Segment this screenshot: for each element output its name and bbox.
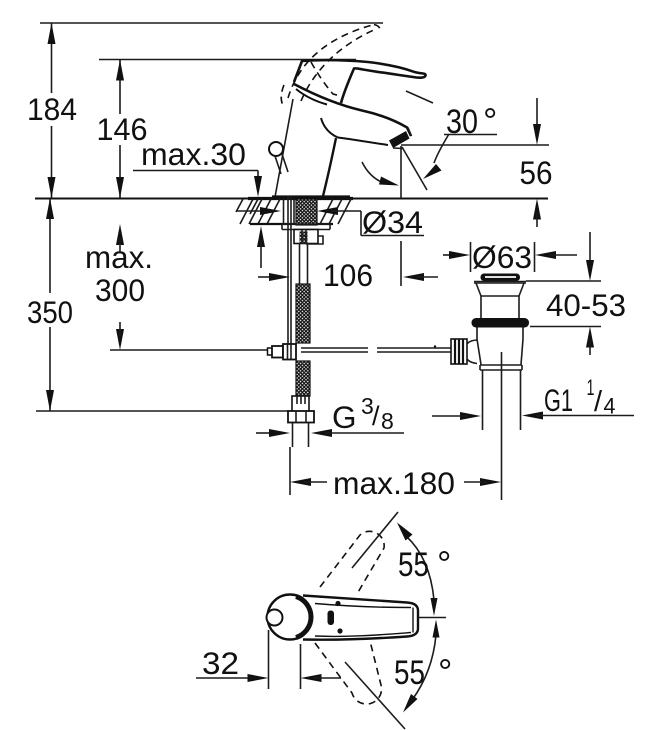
faucet mounting washer — [282, 224, 330, 230]
wire horizontal pop-up rod left segment — [301, 348, 368, 352]
bottom view: dimension 55 lower — [394, 620, 452, 713]
faucet flexible hose lower — [296, 361, 310, 396]
popup waste drain assembly — [451, 274, 529, 501]
svg-text:max.180: max.180 — [333, 465, 455, 501]
svg-text:Ø34: Ø34 — [362, 204, 423, 240]
bottom view: handle plan outline — [267, 595, 419, 640]
faucet hose connector — [300, 244, 308, 285]
faucet pop-up rod knob — [269, 142, 288, 174]
faucet flexible hose upper — [296, 284, 310, 343]
bottom view: dimension 55 upper — [397, 523, 451, 617]
deck slab hatching left — [236, 199, 280, 224]
faucet mounting nut — [294, 230, 323, 245]
svg-text:G1: G1 — [544, 382, 573, 418]
bottom view: angle leg upper — [352, 512, 398, 568]
node dimension 30 deg — [402, 100, 497, 190]
faucet solid lever handle — [294, 60, 426, 103]
svg-text:G: G — [332, 399, 357, 435]
wire bottom reference line 350 — [36, 410, 288, 412]
svg-text:Ø63: Ø63 — [472, 239, 532, 275]
drain knurled knob — [451, 339, 467, 364]
bottom view: angle leg lower — [345, 662, 405, 729]
svg-text:300: 300 — [95, 272, 145, 308]
faucet hose pipe end — [293, 423, 309, 448]
svg-text:/: / — [594, 386, 603, 418]
svg-text:8: 8 — [381, 408, 394, 434]
handle inner bottom line — [315, 633, 411, 637]
node dimension 106 — [258, 257, 438, 293]
faucet pull rod clamp — [268, 344, 297, 360]
node dimension G1 1/4 — [432, 375, 634, 420]
wire deck slab thick segment — [248, 197, 353, 200]
drain body upper — [477, 328, 523, 340]
node dimension max.180 — [290, 465, 501, 501]
node dimension max.300 — [85, 224, 153, 350]
node dimension 184 — [27, 23, 77, 198]
faucet cap rim arc — [296, 89, 327, 105]
drain center line — [501, 352, 503, 500]
bottom view: center axis line — [418, 617, 446, 619]
drain side port — [465, 340, 478, 364]
svg-text:350: 350 — [27, 294, 73, 330]
drain upper cylinder — [481, 296, 519, 318]
handle dot lower — [337, 628, 342, 633]
wire spout outlet reference line — [401, 144, 549, 146]
svg-text:146: 146 — [97, 111, 148, 147]
svg-text:56: 56 — [520, 155, 553, 191]
node dimension 146 — [97, 60, 148, 199]
handle tip inner line — [412, 608, 414, 633]
handle inner top line — [315, 604, 411, 608]
node dimension max.30 — [133, 136, 265, 268]
node dimension diameter 34 — [237, 204, 424, 240]
faucet hose hex nut — [288, 411, 314, 423]
faucet body outline — [272, 99, 388, 197]
node dimension G 3/8 — [256, 393, 404, 437]
wire hose center line — [289, 447, 291, 495]
svg-text:55: 55 — [394, 654, 425, 692]
bottom view: dashed handle rotated up — [320, 531, 384, 594]
wire top reference line 184 — [40, 22, 383, 24]
faucet pull rod tube — [284, 199, 295, 224]
svg-text:°: ° — [437, 543, 451, 584]
svg-text:/: / — [372, 401, 380, 431]
svg-text:max.30: max.30 — [141, 136, 246, 172]
faucet aerator outlet — [389, 128, 412, 149]
wire spout vertical extension line — [400, 146, 402, 198]
bottom view: dashed handle rotated down — [315, 641, 382, 704]
wire horizontal pop-up rod right segment — [377, 348, 452, 352]
faucet hose end fitting — [292, 396, 309, 412]
node dimension 40-53 — [526, 232, 626, 355]
faucet swivel arrow — [362, 162, 399, 186]
drain cap brim — [474, 281, 526, 283]
svg-text:°: ° — [438, 651, 452, 692]
drain cup body — [477, 339, 523, 365]
drain tailpipe — [483, 370, 521, 430]
bottom view: dimension 32 — [196, 630, 341, 689]
drain cap plate — [481, 274, 521, 282]
svg-text:40-53: 40-53 — [546, 287, 626, 323]
drain o-ring seal — [472, 318, 530, 328]
handle dot upper — [335, 601, 340, 606]
svg-text:106: 106 — [323, 257, 373, 293]
node dimension 350 — [27, 198, 73, 411]
wire deck counter line — [35, 198, 548, 200]
rod speck — [434, 345, 436, 347]
faucet threaded shank — [296, 199, 317, 225]
faucet dashed raised lever outline — [281, 25, 379, 106]
deck slab bottom line — [250, 223, 333, 225]
faucet pull rod — [288, 196, 291, 344]
faucet lever tip leader — [406, 91, 433, 103]
handle knob — [267, 610, 283, 626]
handle crescent thick edge — [296, 597, 311, 638]
svg-text:4: 4 — [604, 394, 616, 419]
wire max300 reference line to rod — [110, 349, 271, 351]
wire reference line 146 — [99, 59, 356, 61]
svg-text:184: 184 — [27, 91, 77, 127]
faucet lever cap joint and spout top — [294, 84, 411, 136]
node dimension diameter 63 — [443, 239, 577, 275]
svg-text:32: 32 — [202, 645, 239, 681]
drain taper neck — [474, 283, 526, 296]
node dimension 56 — [520, 98, 553, 227]
svg-text:max.: max. — [85, 239, 153, 275]
svg-text:55: 55 — [398, 546, 429, 584]
handle logo bar — [328, 611, 335, 626]
drain bottom rings — [480, 365, 522, 370]
deck slab hatching right — [320, 199, 351, 224]
